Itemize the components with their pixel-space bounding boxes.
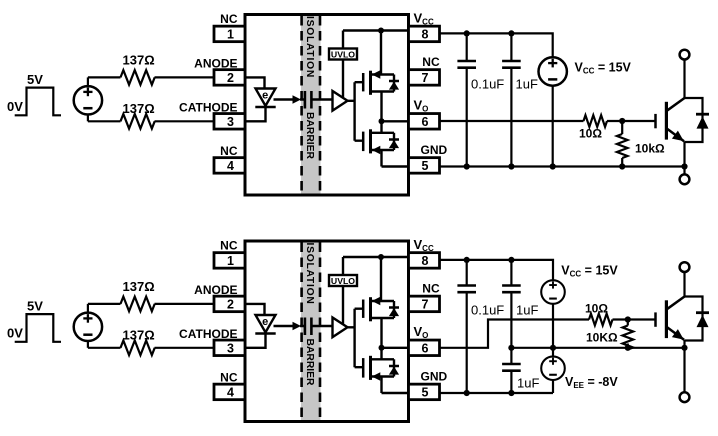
svg-text:0.1uF: 0.1uF — [471, 303, 504, 318]
svg-text:10Ω: 10Ω — [579, 127, 602, 141]
svg-text:10KΩ: 10KΩ — [586, 331, 618, 345]
svg-text:1uF: 1uF — [517, 376, 539, 391]
svg-text:0.1uF: 0.1uF — [471, 77, 504, 92]
svg-text:1uF: 1uF — [516, 77, 538, 92]
svg-text:VCC = 15V: VCC = 15V — [575, 61, 632, 76]
svg-text:VCC = 15V: VCC = 15V — [561, 264, 618, 279]
svg-text:VEE = -8V: VEE = -8V — [565, 375, 618, 390]
svg-text:10kΩ: 10kΩ — [635, 142, 665, 156]
svg-text:10Ω: 10Ω — [585, 302, 608, 316]
svg-text:1uF: 1uF — [516, 303, 538, 318]
